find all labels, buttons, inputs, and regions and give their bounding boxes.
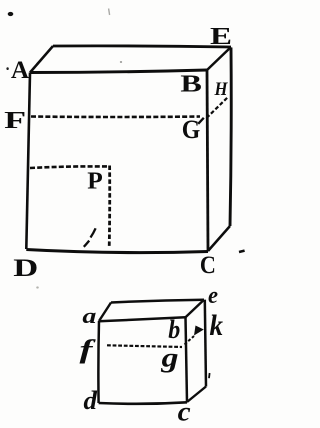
faint speck above box [120,61,122,63]
small cube: left front edge a-d [97,321,100,403]
svg-text:d: d [84,386,99,415]
dashed line F-G [31,115,200,118]
svg-text:E: E [210,24,232,50]
dashed diagonal g-k [185,336,195,345]
wire: front top edge A-B [30,70,207,73]
dashed line to P (horizontal) [30,166,108,168]
apostrophe tick on right face [208,373,211,378]
dashed line below P (vertical) [108,166,111,249]
small cube: back right edge [205,300,206,387]
wire: diagonal at corner A [30,46,53,73]
wire: back right edge [230,48,231,227]
wire: left front edge A-D [26,73,30,250]
svg-text:P: P [87,168,103,194]
svg-text:H: H [214,79,229,100]
small cube: back top edge [111,300,204,303]
svg-text:C: C [200,252,216,279]
faint speck below D [36,286,39,288]
svg-text:A: A [11,57,29,84]
wire: right front edge B-C [207,70,208,251]
faint tick top-centre [109,9,110,16]
arrowhead toward k [194,326,204,336]
small cube: bottom edge d-c [99,402,187,404]
wire: bottom edge D-C [26,250,208,253]
small cube: diagonal at e corner [186,300,205,318]
dash mark right of C [239,251,245,252]
svg-text:b: b [168,315,180,344]
svg-text:D: D [13,255,38,282]
tick at G end [198,118,204,124]
ink speck dot top-left [8,12,14,16]
svg-text:k: k [209,309,223,342]
small cube: diagonal at a [99,303,111,322]
svg-text:c: c [178,396,191,426]
wire: diagonal at corner E [207,47,231,70]
dashed diagonal G-H [207,97,229,118]
dashed line f-g [107,345,182,347]
barb on diagonal at A [37,60,41,64]
small cube: front top edge a-b [99,317,186,321]
small cube: right front edge b-c [186,317,188,402]
svg-text:F: F [4,108,26,134]
svg-text:G: G [182,115,201,144]
svg-text:e: e [208,283,218,309]
tick mark lower (inside P square) [84,241,89,247]
tick mark upper (inside P square) [91,228,96,237]
small cube: diagonal at c corner [187,387,206,403]
svg-text:g: g [160,343,178,373]
svg-text:B: B [180,71,202,97]
wire: back top edge to E [53,46,231,47]
paper background [0,0,250,428]
speck left of A [6,67,8,70]
wire: diagonal at corner C [208,226,230,251]
svg-text:a: a [82,303,96,328]
